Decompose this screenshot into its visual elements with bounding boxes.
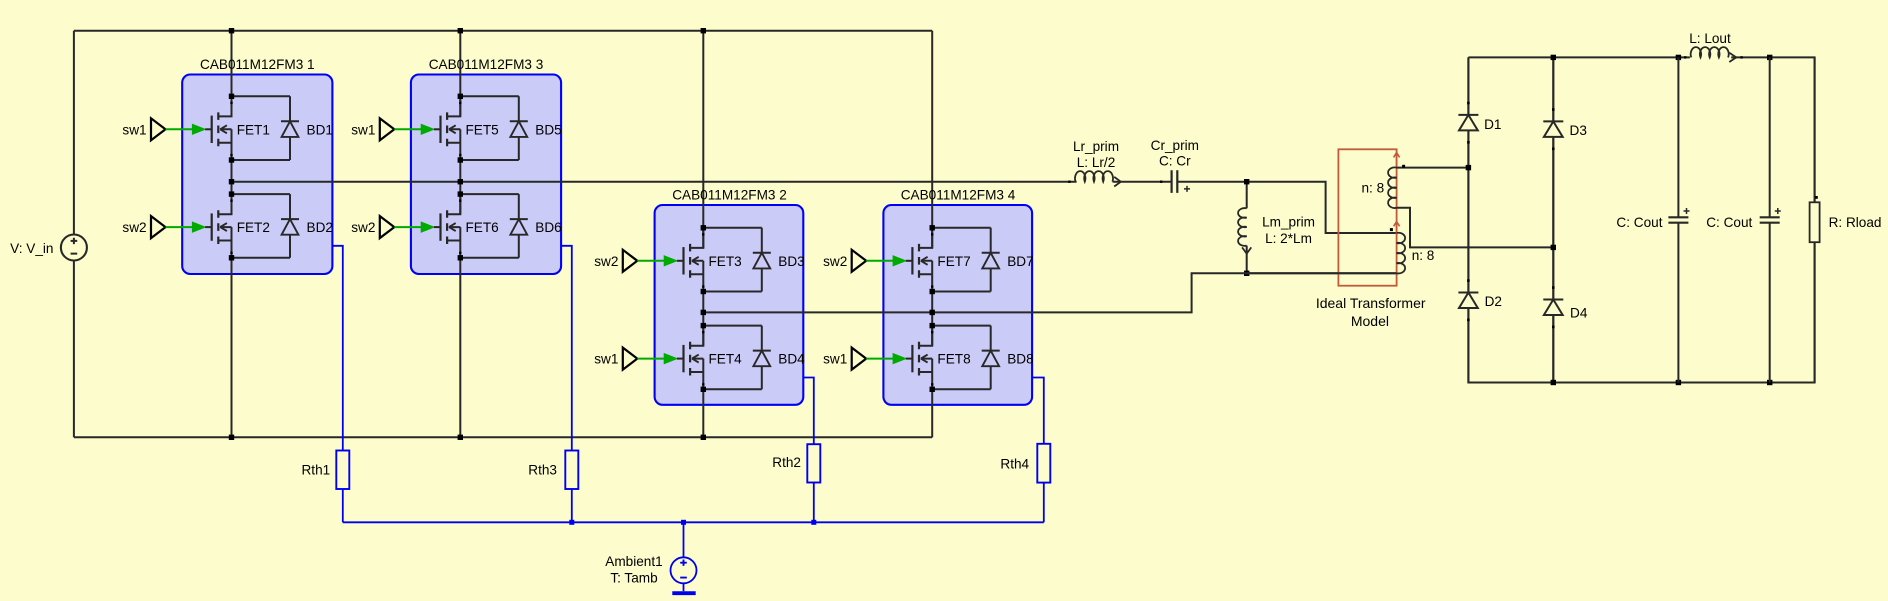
svg-text:D2: D2 <box>1485 294 1502 309</box>
svg-text:FET4: FET4 <box>709 352 743 367</box>
svg-text:BD2: BD2 <box>307 220 333 235</box>
svg-text:D3: D3 <box>1570 123 1587 138</box>
svg-text:Rth3: Rth3 <box>528 463 557 478</box>
svg-text:FET3: FET3 <box>709 254 742 269</box>
svg-text:R: Rload: R: Rload <box>1829 215 1882 230</box>
svg-text:BD3: BD3 <box>778 254 804 269</box>
svg-text:Lr_prim: Lr_prim <box>1073 139 1119 154</box>
svg-text:BD4: BD4 <box>778 352 805 367</box>
svg-text:FET5: FET5 <box>466 122 499 137</box>
svg-text:FET8: FET8 <box>937 352 970 367</box>
svg-text:FET6: FET6 <box>466 220 499 235</box>
svg-text:CAB011M12FM3 4: CAB011M12FM3 4 <box>901 188 1016 203</box>
svg-text:L: Lout: L: Lout <box>1689 31 1731 46</box>
svg-text:n: 8: n: 8 <box>1412 248 1435 263</box>
svg-text:Rth4: Rth4 <box>1000 456 1029 471</box>
svg-text:Cr_prim: Cr_prim <box>1151 138 1199 153</box>
svg-text:BD8: BD8 <box>1007 352 1033 367</box>
svg-text:C: Cout: C: Cout <box>1616 215 1662 230</box>
svg-text:Ambient1: Ambient1 <box>605 554 662 569</box>
svg-text:CAB011M12FM3 3: CAB011M12FM3 3 <box>429 57 544 72</box>
svg-text:C: Cr: C: Cr <box>1159 154 1191 169</box>
svg-text:FET7: FET7 <box>937 254 970 269</box>
svg-text:FET1: FET1 <box>237 122 270 137</box>
svg-text:sw2: sw2 <box>351 220 375 235</box>
svg-text:sw1: sw1 <box>351 122 375 137</box>
svg-text:n: 8: n: 8 <box>1362 180 1385 195</box>
svg-text:sw2: sw2 <box>594 254 618 269</box>
svg-text:CAB011M12FM3 1: CAB011M12FM3 1 <box>200 57 315 72</box>
svg-text:sw1: sw1 <box>122 122 146 137</box>
svg-text:CAB011M12FM3 2: CAB011M12FM3 2 <box>672 188 787 203</box>
svg-text:Rth2: Rth2 <box>772 455 801 470</box>
svg-text:sw1: sw1 <box>594 352 618 367</box>
svg-text:Ideal Transformer: Ideal Transformer <box>1316 295 1426 311</box>
svg-text:Model: Model <box>1351 313 1389 329</box>
svg-text:T: Tamb: T: Tamb <box>610 571 657 586</box>
svg-text:Rth1: Rth1 <box>301 463 330 478</box>
svg-text:C: Cout: C: Cout <box>1706 215 1752 230</box>
svg-text:sw2: sw2 <box>122 220 146 235</box>
svg-text:L: Lr/2: L: Lr/2 <box>1077 155 1116 170</box>
svg-text:V: V_in: V: V_in <box>10 241 53 256</box>
svg-text:sw2: sw2 <box>823 254 847 269</box>
svg-text:FET2: FET2 <box>237 220 270 235</box>
svg-text:BD1: BD1 <box>307 122 333 137</box>
svg-text:sw1: sw1 <box>823 352 847 367</box>
svg-text:BD5: BD5 <box>535 122 561 137</box>
svg-text:D1: D1 <box>1484 117 1501 132</box>
svg-text:D4: D4 <box>1570 305 1588 320</box>
svg-text:L: 2*Lm: L: 2*Lm <box>1265 231 1312 246</box>
svg-text:BD6: BD6 <box>535 220 561 235</box>
svg-text:Lm_prim: Lm_prim <box>1262 214 1315 229</box>
svg-text:BD7: BD7 <box>1007 254 1033 269</box>
